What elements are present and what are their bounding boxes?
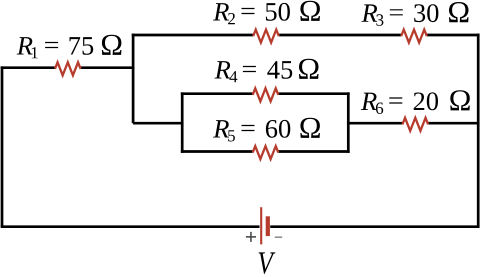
battery plus sign (246, 232, 256, 242)
wire: R6 branch horizontal segments (347, 122, 480, 125)
wire: bottom of outer loop, left of battery (1, 225, 260, 228)
battery V: long plate (positive terminal) (260, 207, 262, 244)
resistor R6 zigzag (403, 118, 429, 131)
label R3 = 30 Ω (361, 2, 468, 26)
resistor R3 zigzag (401, 30, 427, 43)
wire: bottom of outer loop, right of battery (270, 225, 479, 228)
node A: junction vertical wire after R1 (132, 34, 135, 124)
resistor R2 zigzag (253, 30, 279, 43)
battery V: short thick plate (negative terminal) (266, 216, 270, 236)
resistor R1 zigzag (55, 62, 81, 75)
label R5 = 60 Ω (213, 118, 320, 142)
wire: R4 branch horizontal segments (181, 92, 350, 95)
resistor R4 zigzag (253, 88, 279, 101)
wire: left vertical side of outer loop (1, 66, 4, 226)
wire: parallel box right vertical (347, 92, 350, 153)
wire: connector from node A to parallel box (133, 122, 183, 125)
resistor R5 zigzag (253, 146, 279, 159)
label R2 = 50 Ω (213, 1, 320, 25)
label R4 = 45 Ω (215, 59, 319, 83)
label R1 = 75 Ω (17, 35, 122, 59)
label V (battery voltage) (259, 252, 276, 274)
wire: parallel box left vertical (181, 92, 184, 153)
label R6 = 20 Ω (361, 90, 470, 114)
wire: R1 branch horizontal segments (1, 66, 135, 69)
wire: right vertical side of outer loop (477, 34, 480, 227)
battery minus sign (275, 236, 282, 238)
wire: R5 branch horizontal segments (181, 150, 350, 153)
wire: top branch horizontal segments (132, 34, 480, 37)
